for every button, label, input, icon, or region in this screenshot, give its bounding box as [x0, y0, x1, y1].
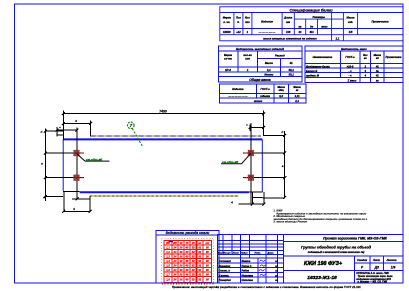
- X marks (dark red): [74, 150, 254, 181]
- svg-text:изд.: изд.: [348, 20, 353, 24]
- svg-text:24: 24: [173, 259, 177, 263]
- svg-text:Изм: Изм: [218, 253, 223, 255]
- svg-text:24: 24: [173, 268, 177, 272]
- svg-text:1/5: 1/5: [349, 30, 353, 34]
- svg-text:3,11: 3,11: [295, 94, 300, 98]
- svg-text:24: 24: [173, 246, 177, 250]
- svg-text:48: 48: [185, 250, 189, 254]
- svg-text:Составил: Составил: [219, 260, 232, 263]
- svg-text:411: 411: [308, 30, 314, 34]
- svg-text:16323-Ж1-18: 16323-Ж1-18: [307, 275, 337, 281]
- svg-text:4: 4: [72, 207, 75, 211]
- svg-text:КЖИ8: КЖИ8: [223, 30, 231, 34]
- svg-text:50,1: 50,1: [289, 68, 295, 72]
- svg-text:4: 4: [74, 119, 77, 123]
- svg-text:ав: ав: [298, 25, 301, 28]
- svg-text:щебень М: щебень М: [306, 74, 320, 78]
- svg-text:Бетон В: Бетон В: [306, 69, 317, 73]
- svg-text:3. масса единицы Рпогон: 3. масса единицы Рпогон: [273, 220, 307, 224]
- svg-text:Подп.: Подп.: [255, 252, 262, 255]
- svg-text:Примечание: настоящий чертёж р: Примечание: настоящий чертёж разработан …: [172, 285, 361, 289]
- svg-text:Стадия: Стадия: [357, 259, 367, 262]
- svg-text:F: F: [41, 130, 43, 134]
- svg-text:Размеры: Размеры: [313, 15, 326, 19]
- top-right small dims: [249, 123, 285, 204]
- svg-text:1,2: 1,2: [166, 250, 170, 254]
- svg-text:Итого: Итого: [264, 73, 273, 77]
- svg-text:1,3: 1,3: [166, 255, 170, 259]
- svg-text:итого: итого: [254, 100, 263, 103]
- svg-text:Ведомость расхода стали: Ведомость расхода стали: [166, 231, 210, 235]
- svg-text:24: 24: [173, 278, 177, 282]
- svg-text:шт: шт: [245, 57, 250, 60]
- svg-text:24: 24: [173, 264, 177, 268]
- top-left small dims: [45, 121, 92, 200]
- svg-text:Проект горизонта ГМК. МЗ-ОЗ-Г: Проект горизонта ГМК. МЗ-ОЗ-ГМК: [323, 237, 388, 241]
- svg-text:3,1: 3,1: [267, 68, 271, 72]
- X-row horizontal lines: [45, 153, 284, 178]
- svg-text:1,6: 1,6: [166, 268, 170, 272]
- svg-text:д.: д.: [237, 20, 240, 24]
- svg-text:см.общ.⌀б: см.общ.⌀б: [222, 160, 238, 164]
- svg-text:— — — — —: — — — — —: [258, 31, 276, 34]
- svg-text:общ: общ: [279, 89, 285, 92]
- svg-text:Николаев: Николаев: [242, 274, 254, 277]
- svg-text:1/9: 1/9: [391, 265, 396, 269]
- svg-text:Фундамент-балка: Фундамент-балка: [306, 64, 330, 68]
- svg-text:подземный к монтажной схеме мо: подземный к монтажной схеме монолит №): [308, 251, 365, 254]
- svg-text:1,5: 1,5: [166, 264, 170, 268]
- svg-text:мм: мм: [286, 21, 290, 24]
- green leader labels: [77, 153, 251, 164]
- svg-text:50,1: 50,1: [289, 73, 295, 77]
- svg-text:+12: +12: [236, 30, 241, 34]
- svg-text:F: F: [281, 130, 283, 134]
- svg-text:41: 41: [375, 74, 379, 78]
- svg-text:масс: масс: [321, 25, 328, 28]
- dashed bar lines (yellow solid + blue dashes): [90, 136, 261, 196]
- svg-text:Попов А: Попов А: [242, 265, 252, 268]
- svg-text:Рябов: Рябов: [242, 270, 250, 273]
- svg-text:2,1: 2,1: [335, 36, 340, 40]
- svg-text:Марка: Марка: [223, 16, 232, 20]
- svg-text:ед: ед: [376, 57, 379, 60]
- svg-text:см.общ.⌀б: см.общ.⌀б: [86, 157, 102, 161]
- svg-text:Σ масс: Σ масс: [347, 79, 357, 83]
- svg-text:48: 48: [185, 255, 189, 259]
- svg-text:Примечание: Примечание: [386, 55, 402, 59]
- svg-text:Кол.уч: Кол.уч: [224, 253, 232, 255]
- svg-text:Расход: Расход: [275, 54, 285, 58]
- svg-text:1,1: 1,1: [166, 246, 170, 250]
- svg-text:6,Х: 6,Х: [279, 94, 283, 98]
- svg-text:48: 48: [185, 264, 189, 268]
- svg-text:41: 41: [298, 30, 302, 34]
- svg-text:48: 48: [185, 268, 189, 272]
- svg-text:Масса: Масса: [265, 61, 274, 65]
- svg-text:Ведомость масс: Ведомость масс: [341, 47, 367, 51]
- svg-text:масса анкерных элементов на из: масса анкерных элементов на изделие: [263, 36, 317, 40]
- svg-text:Кол: Кол: [245, 16, 250, 20]
- svg-text:КР-8: КР-8: [225, 68, 231, 72]
- svg-text:41: 41: [375, 64, 379, 68]
- svg-text:- ч: - ч: [348, 70, 352, 73]
- svg-text:тбалка: тбалка: [260, 94, 270, 98]
- svg-text:Масса: Масса: [347, 16, 356, 20]
- panel outline: [63, 139, 262, 192]
- bottom-right step + dims: [239, 192, 285, 205]
- top dimension: [62, 111, 265, 140]
- right vertical dim line: [283, 131, 286, 199]
- svg-text:24: 24: [173, 273, 177, 277]
- svg-text:Ø8: Ø8: [173, 241, 177, 245]
- svg-text:Изделие: Изделие: [261, 19, 273, 23]
- svg-text:ДЗ: ДЗ: [374, 265, 379, 269]
- svg-text:Группы обводной трубы на объез: Группы обводной трубы на объезд: [301, 245, 372, 250]
- svg-text:Соглас. п: Соглас. п: [219, 270, 231, 273]
- svg-text:1,4: 1,4: [166, 259, 170, 263]
- svg-text:Спецификация балки: Спецификация балки: [289, 7, 333, 12]
- notes block: [272, 209, 367, 224]
- svg-text:Лист: Лист: [232, 253, 239, 255]
- svg-text:48: 48: [185, 259, 189, 263]
- svg-text:Примечание: Примечание: [371, 19, 389, 23]
- svg-text:48: 48: [185, 246, 189, 250]
- svg-text:Иванов: Иванов: [242, 260, 251, 263]
- svg-text:г. Москва — МЗ. ОЗ. ГМК: г. Москва — МЗ. ОЗ. ГМК: [358, 281, 388, 284]
- svg-text:шт: шт: [245, 21, 250, 24]
- svg-text:Общая масса: Общая масса: [249, 78, 271, 82]
- svg-text:Марка: Марка: [224, 53, 233, 57]
- svg-text:— — — — — —: — — — — — —: [227, 95, 248, 98]
- svg-text:Проверил: Проверил: [219, 265, 231, 268]
- svg-text:Николаев: Николаев: [242, 279, 254, 282]
- bottom-left step + dims: [43, 192, 91, 213]
- svg-text:×10-9: ×10-9: [347, 64, 354, 68]
- svg-text:п. эл.: п. эл.: [223, 21, 230, 24]
- svg-text:ГОСТ-е: ГОСТ-е: [260, 87, 270, 91]
- svg-text:Утвердил: Утвердил: [219, 279, 232, 282]
- svg-text:Дата: Дата: [267, 253, 275, 255]
- svg-text:48: 48: [185, 278, 189, 282]
- svg-text:24: 24: [173, 255, 177, 259]
- svg-text:1,8: 1,8: [166, 278, 170, 282]
- svg-text:Листов: Листов: [386, 259, 397, 262]
- svg-text:Н.контр.: Н.контр.: [219, 274, 230, 277]
- svg-text:Длина: Длина: [283, 16, 293, 20]
- svg-text:- ч: - ч: [348, 75, 352, 78]
- svg-text:4а: 4а: [375, 69, 379, 73]
- svg-text:Наименование: Наименование: [313, 55, 333, 59]
- svg-text:КЖИ 198 ФУЗ+: КЖИ 198 ФУЗ+: [304, 261, 343, 267]
- svg-text:2,1: 2,1: [294, 99, 299, 103]
- svg-text:Поз: Поз: [236, 16, 241, 20]
- svg-text:ГОСТ-е: ГОСТ-е: [345, 55, 355, 59]
- svg-text:1,7: 1,7: [166, 273, 170, 277]
- svg-text:Изделие: Изделие: [232, 87, 244, 91]
- svg-text:24: 24: [173, 250, 177, 254]
- svg-text:20: 20: [191, 241, 195, 245]
- svg-text:Лист: Лист: [372, 259, 381, 262]
- svg-text:Ведомость закладных изделий: Ведомость закладных изделий: [236, 47, 284, 51]
- svg-text:дв: дв: [310, 24, 314, 28]
- svg-text:48: 48: [185, 273, 189, 277]
- svg-text:эл-та: эл-та: [224, 57, 232, 60]
- green balloon: [128, 122, 143, 147]
- bottom edge black segments: [63, 191, 262, 194]
- left vertical dim line: [44, 129, 47, 202]
- svg-text:4: 4: [230, 200, 233, 204]
- svg-text:115: 115: [286, 30, 291, 34]
- svg-text:№док: №док: [241, 252, 248, 255]
- svg-text:7490: 7490: [159, 109, 167, 113]
